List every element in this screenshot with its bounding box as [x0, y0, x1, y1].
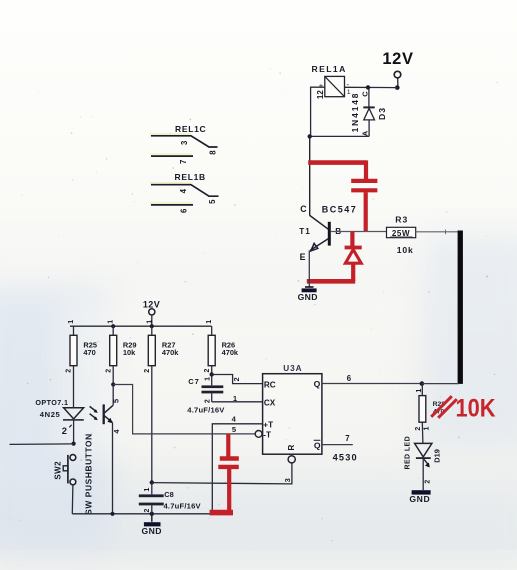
svg-text:1: 1 — [68, 320, 75, 324]
svg-text:4.7uF/16V: 4.7uF/16V — [164, 501, 202, 510]
svg-text:5: 5 — [208, 199, 217, 204]
svg-text:1: 1 — [144, 488, 151, 492]
svg-text:4.7uF/16V: 4.7uF/16V — [187, 405, 225, 414]
wire: bottom rail — [72, 512, 212, 516]
relay contact REL1C pins 3/8 — [151, 124, 218, 155]
svg-text:REL1A: REL1A — [312, 64, 347, 74]
svg-text:+: + — [319, 81, 324, 90]
svg-text:4530: 4530 — [333, 452, 358, 462]
svg-text:5: 5 — [232, 425, 237, 434]
svg-text:2: 2 — [144, 369, 151, 373]
svg-text:10k: 10k — [123, 348, 136, 357]
svg-text:470k: 470k — [162, 348, 179, 357]
capacitor (red annotation, collector to base) — [308, 160, 377, 231]
svg-text:470k: 470k — [222, 348, 239, 357]
svg-text:BC547: BC547 — [322, 204, 358, 214]
scan smear tints near relay contacts — [150, 133, 192, 205]
capacitor (red annotation, -T node to ground rail) — [210, 434, 239, 513]
svg-text:1: 1 — [206, 320, 213, 324]
wire: Q output (pin 6) to LED branch node — [322, 374, 459, 386]
svg-text:+T: +T — [263, 420, 273, 429]
resistor R28 (re-marked 10K) — [415, 384, 445, 444]
wire: C7 to CX pin — [212, 394, 263, 403]
svg-text:1: 1 — [146, 320, 153, 324]
svg-text:6: 6 — [180, 208, 189, 213]
svg-text:RED LED: RED LED — [405, 436, 412, 470]
svg-text:8: 8 — [209, 150, 218, 155]
optocoupler OPTO7.1 4N25 : LED side — [35, 398, 83, 444]
svg-text:12: 12 — [316, 90, 325, 99]
svg-text:2: 2 — [205, 399, 212, 403]
resistor R27 470k — [144, 320, 179, 483]
svg-text:4: 4 — [232, 415, 237, 424]
svg-text:REL1C: REL1C — [175, 124, 206, 134]
svg-text:4: 4 — [179, 188, 188, 193]
wire: R26 node to RC pin — [212, 375, 263, 384]
optocoupler phototransistor side — [90, 385, 121, 514]
wire: 12V rail — [70, 324, 212, 328]
diode (red annotation, base-emitter) — [307, 232, 362, 282]
svg-text:2: 2 — [424, 480, 431, 484]
wire: relay left pin down — [311, 87, 325, 136]
wire: base to R3 — [331, 231, 387, 233]
svg-text:-: - — [346, 80, 349, 89]
svg-text:2: 2 — [204, 368, 211, 372]
svg-text:REL1B: REL1B — [175, 172, 206, 182]
svg-text:1: 1 — [108, 320, 115, 324]
relay contact REL1B pins 4/5 — [151, 172, 219, 204]
resistor R25 470 — [66, 320, 97, 408]
node: diode top junction — [366, 85, 370, 89]
svg-text:Q: Q — [314, 379, 321, 389]
svg-text:3: 3 — [180, 140, 189, 145]
resistor R26 470k — [204, 320, 239, 377]
svg-text:-T: -T — [263, 430, 271, 439]
relay contact REL1B pin 6 — [151, 205, 193, 213]
wire: Q-bar output (pin 7) stub — [322, 434, 353, 445]
ground (below T1) — [298, 287, 318, 302]
svg-text:10k: 10k — [397, 245, 414, 255]
svg-text:C: C — [360, 91, 369, 97]
svg-text:1: 1 — [204, 377, 211, 381]
wire: -T pin left, up to R29 node — [113, 385, 255, 434]
svg-text:Q: Q — [314, 440, 321, 450]
svg-text:2: 2 — [144, 508, 151, 512]
svg-text:GND: GND — [298, 292, 318, 302]
svg-text:RC: RC — [264, 380, 276, 389]
svg-text:2: 2 — [232, 377, 241, 381]
wire: R3 to heavy line — [416, 230, 459, 235]
svg-text:D19: D19 — [433, 449, 442, 463]
wire: collector feed down — [309, 136, 311, 215]
scan speckle noise — [10, 68, 498, 541]
node: C8 top junction — [150, 480, 154, 484]
12V supply terminal (bottom left) — [143, 300, 160, 327]
wire: bottom of relay branch, node — [308, 134, 370, 138]
svg-text:6: 6 — [347, 374, 352, 383]
resistor R3 25W / 10k — [387, 215, 416, 255]
svg-text:SW PUSHBUTTON: SW PUSHBUTTON — [84, 433, 94, 515]
svg-text:C7: C7 — [188, 377, 199, 386]
light arrows — [90, 406, 97, 411]
LED D19 RED LED — [405, 436, 442, 490]
svg-text:GND: GND — [142, 526, 162, 536]
wire: stub to left edge — [10, 443, 74, 446]
svg-text:10K: 10K — [456, 395, 496, 423]
svg-text:2: 2 — [66, 369, 73, 373]
svg-text:CX: CX — [264, 399, 276, 408]
ground (below D19) — [409, 490, 430, 504]
relay contact REL1C pin 7 — [151, 156, 193, 164]
svg-text:T1: T1 — [299, 227, 311, 236]
svg-text:2: 2 — [415, 427, 422, 431]
svg-text:3: 3 — [283, 478, 292, 482]
svg-text:D3: D3 — [377, 107, 387, 120]
svg-text:1: 1 — [424, 426, 431, 430]
svg-text:470: 470 — [83, 348, 95, 357]
svg-text:R: R — [287, 444, 296, 450]
svg-text:SW2: SW2 — [54, 461, 63, 480]
svg-text:E: E — [300, 252, 306, 262]
svg-text:U3A: U3A — [283, 364, 302, 373]
12V supply terminal (top) — [382, 50, 413, 90]
svg-text:12V: 12V — [382, 50, 413, 68]
relay coil REL1A — [312, 64, 351, 99]
wire: heavy marker line (R3 node down to LED branch) — [458, 231, 463, 384]
svg-text:1: 1 — [416, 389, 423, 393]
wire: relay/diode node to 12V terminal — [345, 86, 398, 88]
svg-text:7: 7 — [345, 434, 349, 443]
capacitor C7 4.7uF/16V — [187, 375, 225, 415]
svg-text:GND: GND — [409, 494, 430, 504]
wire: emitter down — [308, 250, 310, 287]
wire: C8 node to IC reset pin — [152, 463, 292, 484]
svg-text:2: 2 — [105, 369, 112, 373]
capacitor C8 4.7uF/16V — [139, 483, 202, 514]
svg-text:R3: R3 — [395, 215, 408, 225]
annotation: red strike-through — [431, 396, 457, 418]
wire: +T pin left and down to bottom rail — [212, 415, 262, 514]
transistor T1 BC547 — [299, 204, 357, 262]
svg-text:5: 5 — [112, 399, 121, 403]
svg-text:C8: C8 — [164, 490, 173, 499]
resistor R29 10k — [105, 320, 136, 387]
svg-text:A: A — [360, 130, 369, 136]
svg-text:1N4148: 1N4148 — [350, 92, 360, 133]
svg-text:C: C — [300, 204, 307, 214]
svg-text:OPTO7.1: OPTO7.1 — [35, 398, 68, 407]
svg-text:7: 7 — [179, 160, 188, 164]
diode D3 1N4148 — [350, 89, 387, 136]
wire: switch to bottom rail — [71, 485, 74, 514]
op IC U3A 4538 monostable — [255, 364, 358, 463]
svg-text:4N25: 4N25 — [40, 410, 61, 419]
svg-text:2: 2 — [62, 425, 67, 436]
ground (bottom, near C8) — [142, 514, 162, 536]
node: LED cathode / switch junction — [72, 442, 76, 446]
pushbutton SW2 — [54, 455, 76, 485]
